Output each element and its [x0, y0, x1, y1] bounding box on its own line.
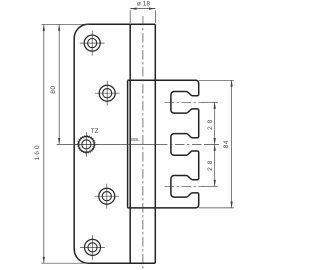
screw hole H5 crosshair — [80, 235, 105, 260]
dimension 84 extension lines — [199, 80, 234, 208]
svg-text:84: 84 — [223, 140, 230, 148]
svg-text:160: 160 — [34, 145, 41, 160]
left plate right edge / fixed knuckle edge — [129, 24, 131, 263]
screw hole H4 crosshair — [94, 184, 119, 209]
screw hole H1 crosshair — [80, 31, 105, 56]
dimension o18 arrows — [130, 8, 155, 10]
right leaf with three hook slots — [128, 80, 199, 208]
svg-text:ø 18: ø 18 — [137, 1, 151, 8]
screw hole H4 circles — [99, 188, 115, 204]
svg-text:BBL: BBL — [131, 137, 140, 142]
screw hole H2 crosshair — [95, 81, 120, 106]
hole H3 (TZ) serrated circle ticks — [77, 135, 96, 154]
left hinge leaf plate outline — [74, 24, 155, 263]
slot 3 center line — [165, 185, 204, 187]
screw hole H2 circles — [99, 85, 115, 101]
dimension o18 line — [130, 9, 155, 23]
dimension 84 line — [231, 80, 233, 208]
dimension 28 arrows — [214, 102, 216, 186]
barrel center line — [142, 16, 144, 269]
middle knuckle left edge — [127, 80, 129, 208]
hinge barrel right edge — [154, 24, 156, 263]
dimension 28 chain line — [214, 102, 216, 186]
extension line through TZ hole and middle slot — [57, 143, 220, 145]
screw hole H3 TZ crosshair — [74, 132, 99, 157]
screw hole H5 circles — [85, 239, 101, 255]
dimension 84 arrows — [231, 80, 233, 208]
dimension 160 line — [41, 24, 89, 263]
dimension 80 arrows — [58, 24, 60, 144]
screw hole H3 TZ circles — [78, 136, 94, 152]
svg-text:80: 80 — [50, 86, 57, 94]
slot 1 center line — [165, 101, 204, 103]
dimension 80 line — [58, 24, 60, 144]
screw hole H1 circles — [84, 35, 100, 51]
svg-text:TZ: TZ — [91, 128, 98, 135]
dimension 160 arrows — [43, 24, 45, 263]
